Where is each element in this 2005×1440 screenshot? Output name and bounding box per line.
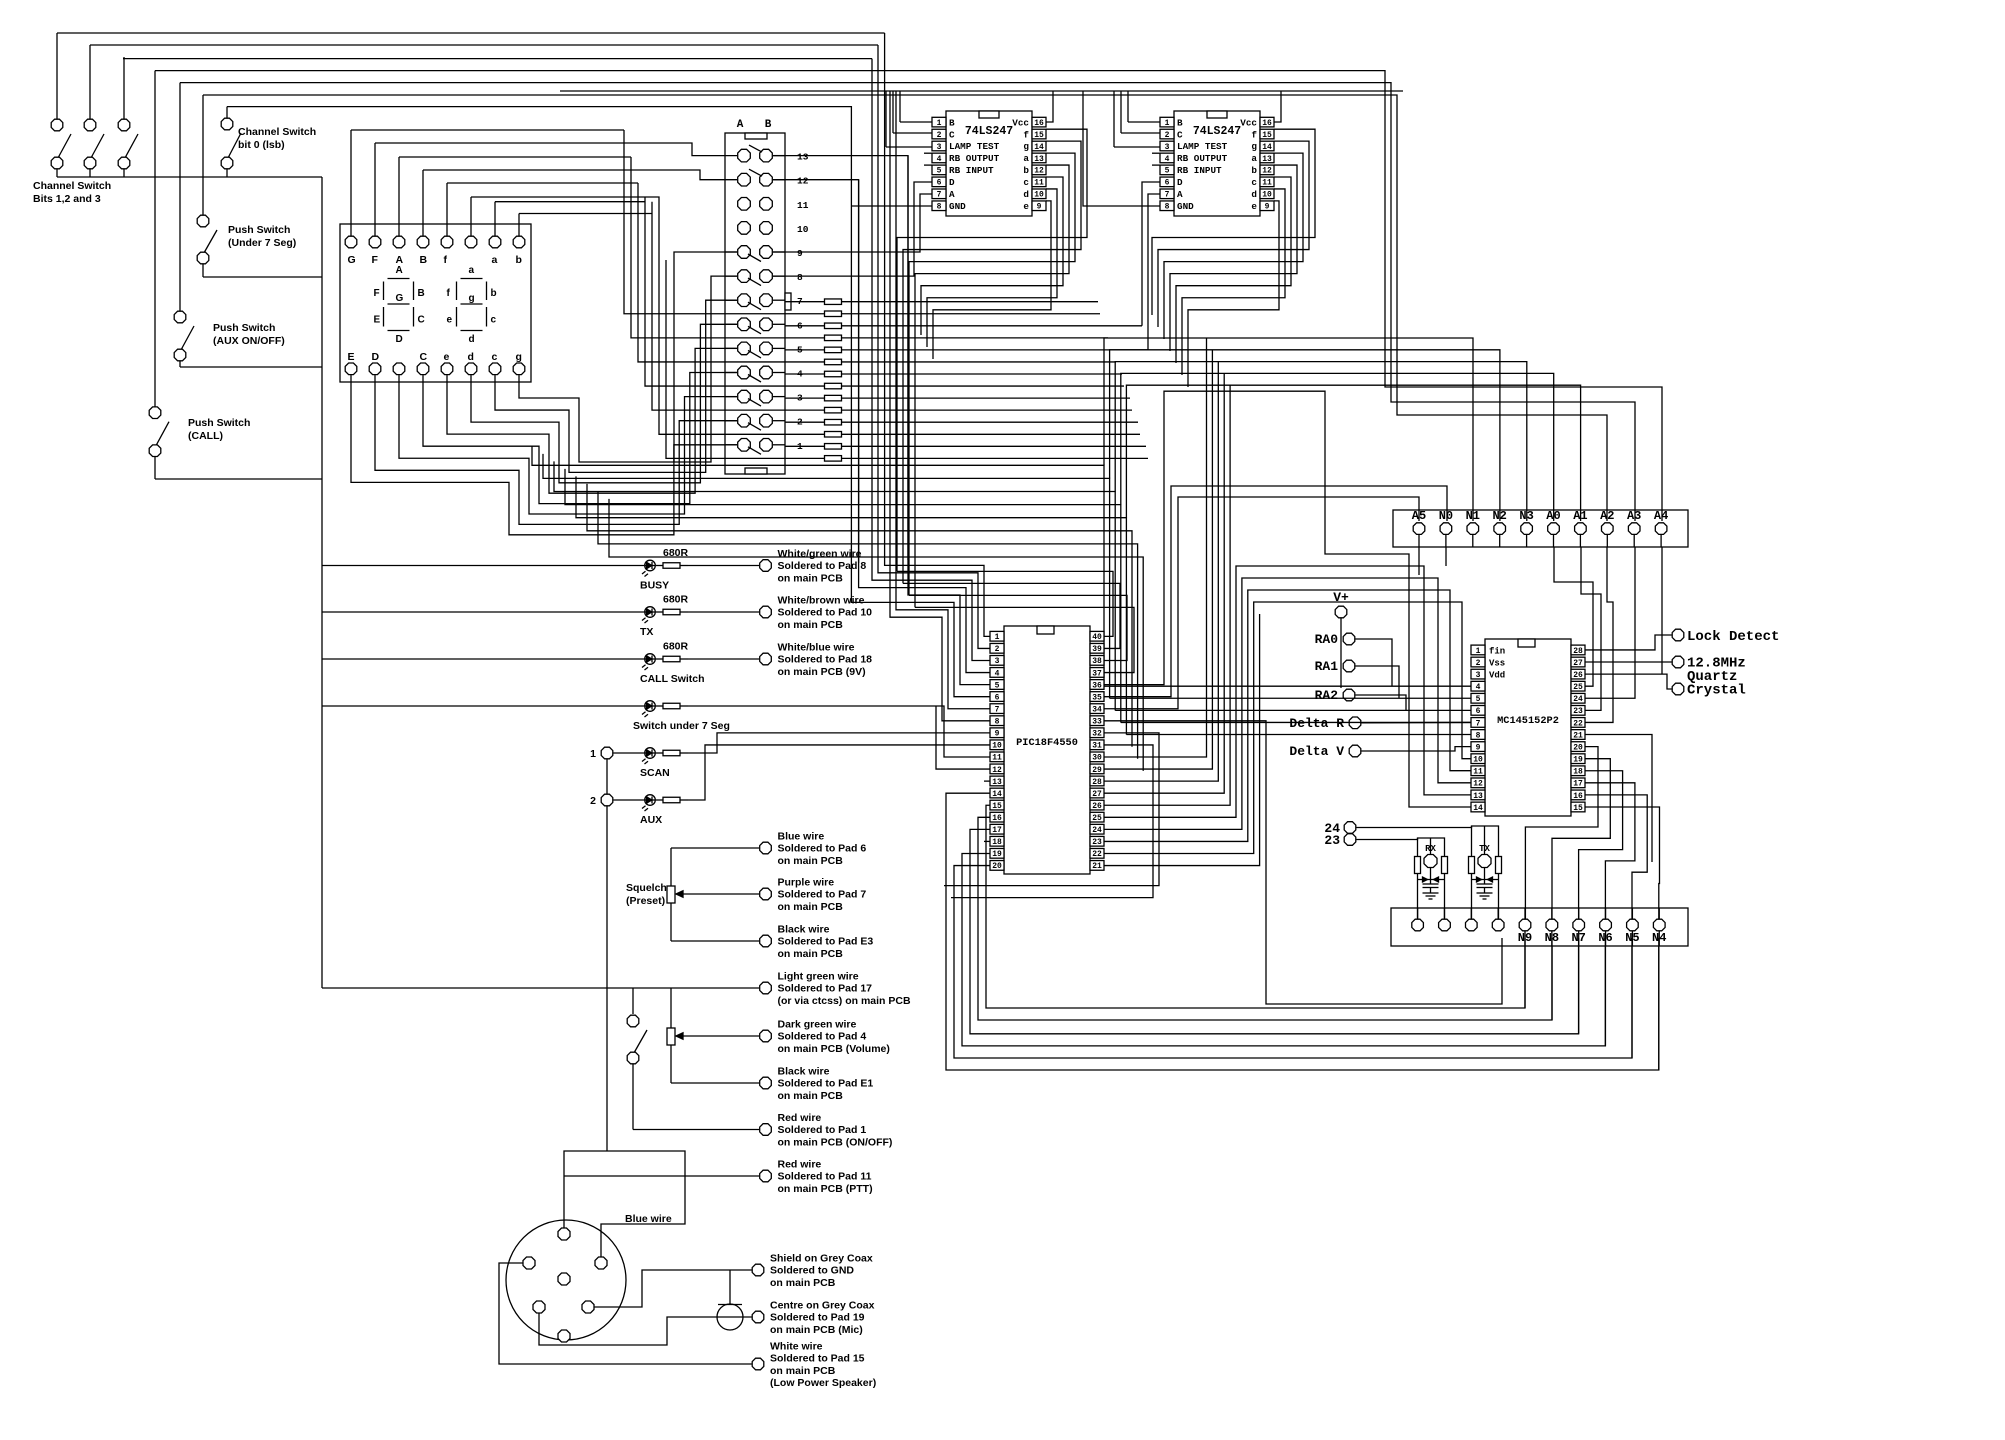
svg-text:21: 21: [1573, 731, 1583, 740]
LED row BUSY: [322, 547, 759, 592]
svg-text:9: 9: [1476, 743, 1481, 752]
terminal Crystal: [1672, 683, 1746, 699]
svg-text:on main PCB: on main PCB: [778, 948, 844, 960]
7seg top pin b: [513, 224, 525, 266]
wire 7seg top riser: [494, 202, 496, 224]
svg-text:29: 29: [1092, 766, 1102, 775]
wire 7seg b line: [519, 213, 652, 215]
strip terminal aux3: [1466, 919, 1478, 931]
svg-text:8: 8: [995, 718, 1000, 727]
svg-text:(CALL): (CALL): [188, 430, 223, 442]
svg-text:RA0: RA0: [1315, 632, 1339, 647]
wire N bottom stub: [1605, 931, 1607, 946]
wire U1 GND stub: [851, 205, 932, 207]
resistor column R11: [785, 419, 1138, 425]
svg-text:Crystal: Crystal: [1687, 683, 1746, 699]
svg-text:Soldered to Pad 8: Soldered to Pad 8: [778, 560, 867, 572]
svg-text:D: D: [396, 334, 403, 345]
svg-text:Soldered to Pad 15: Soldered to Pad 15: [770, 1353, 865, 1365]
terminal pad Soldered to Pad 19: [752, 1300, 874, 1336]
svg-text:LAMP TEST: LAMP TEST: [949, 141, 1000, 152]
wire PIC pin30 up to strip: [1104, 338, 1207, 757]
wire to PIC pin 3: [872, 59, 990, 661]
resistor column R10: [825, 407, 842, 413]
svg-text:b: b: [491, 288, 497, 299]
terminal pad Soldered to Pad 1: [760, 1112, 893, 1148]
svg-text:40: 40: [1092, 633, 1102, 642]
wire PIC pin40 row: [897, 571, 1113, 636]
svg-text:RB INPUT: RB INPUT: [949, 165, 994, 176]
svg-text:E: E: [374, 315, 381, 326]
LED row Switch under 7 Seg: [322, 701, 730, 732]
connector J1 body: [725, 133, 791, 474]
7seg top pin -: [465, 224, 477, 248]
wire 24 to TX: [1356, 826, 1471, 828]
svg-text:21: 21: [1092, 862, 1102, 871]
resistor column R7: [785, 371, 1122, 377]
svg-text:Shield on Grey Coax: Shield on Grey Coax: [770, 1253, 873, 1265]
svg-text:f: f: [1023, 129, 1029, 140]
svg-text:(AUX ON/OFF): (AUX ON/OFF): [213, 335, 285, 347]
wire U2 pin1-3 taps: [1114, 91, 1160, 147]
strip terminal aux2: [1439, 919, 1451, 931]
svg-text:d: d: [1251, 189, 1257, 200]
channel switch bit 0 (lsb): [221, 107, 316, 177]
svg-text:2: 2: [1165, 131, 1170, 140]
svg-text:2: 2: [1476, 659, 1481, 668]
svg-text:Delta R: Delta R: [1289, 716, 1344, 731]
svg-text:12: 12: [797, 176, 809, 187]
svg-text:C: C: [949, 129, 955, 140]
wire MC pin27 to 12.8MHz: [1585, 661, 1672, 663]
svg-text:B: B: [420, 254, 428, 266]
svg-text:1: 1: [937, 119, 942, 128]
7seg bottom pin -: [393, 363, 405, 382]
wire 7seg A line: [399, 156, 631, 158]
wire 7seg a line: [495, 201, 645, 203]
svg-text:on main PCB: on main PCB: [778, 901, 844, 913]
7seg top pin G: [345, 224, 357, 266]
svg-text:4: 4: [995, 669, 1000, 678]
svg-text:Centre on Grey Coax: Centre on Grey Coax: [770, 1300, 875, 1312]
svg-text:on main PCB (9V): on main PCB (9V): [778, 666, 866, 678]
wire Delta V to MC pin9: [1361, 747, 1471, 751]
svg-text:10: 10: [1034, 191, 1044, 200]
svg-text:GND: GND: [1177, 201, 1194, 212]
terminal pad Soldered to Pad E1: [760, 1066, 874, 1102]
wire MC pin22 to A2: [1585, 547, 1613, 722]
svg-text:34: 34: [1092, 705, 1102, 714]
wire lower rows group: [532, 446, 1143, 770]
svg-text:Soldered to Pad 19: Soldered to Pad 19: [770, 1312, 865, 1324]
svg-text:on main PCB (Volume): on main PCB (Volume): [778, 1043, 890, 1055]
svg-text:PIC18F4550: PIC18F4550: [1016, 737, 1078, 749]
wire 7seg bottom g to connector row 8: [519, 276, 737, 462]
svg-text:1: 1: [995, 633, 1000, 642]
wire N bottom stub: [1524, 931, 1526, 946]
wire PIC pin36 up: [1104, 391, 1471, 807]
svg-text:10: 10: [797, 224, 809, 235]
svg-text:2: 2: [995, 645, 1000, 654]
svg-text:a: a: [1023, 153, 1029, 164]
wire N bottom stub: [1551, 931, 1553, 946]
svg-text:A3: A3: [1627, 509, 1641, 523]
svg-text:D: D: [372, 351, 380, 363]
svg-text:Purple wire: Purple wire: [778, 877, 835, 889]
wire U2 Vcc riser: [1274, 91, 1281, 122]
connector row 1: [738, 439, 803, 455]
terminal pad Soldered to Pad 18: [760, 642, 872, 678]
channel switch bit 1: [51, 33, 71, 177]
wire MC pin17 to N strip: [1585, 783, 1635, 919]
strip terminal A3: [1627, 509, 1641, 547]
wire AUX line to A3: [180, 83, 1635, 521]
terminal pad Soldered to Pad 17: [760, 971, 911, 1007]
svg-text:3: 3: [1165, 143, 1170, 152]
svg-text:5: 5: [937, 167, 942, 176]
connector row 5: [738, 342, 803, 358]
wire to PIC pin 4: [859, 180, 990, 673]
wire 7seg bottom C to connector row 4: [423, 373, 737, 504]
7seg bottom pin E: [345, 351, 357, 382]
wire PIC pin22 to MC: [1104, 602, 1471, 853]
7seg bottom pin C: [417, 351, 429, 382]
svg-text:31: 31: [1092, 742, 1102, 751]
wire F line to row13: [375, 143, 737, 156]
svg-text:28: 28: [1573, 647, 1583, 656]
wire 7seg f line: [447, 182, 638, 184]
wire 7seg bottom pin to connector row 3: [399, 382, 737, 514]
wire segment feed 3: [645, 197, 1124, 386]
svg-text:A: A: [1177, 189, 1183, 200]
resistor column R3: [785, 323, 1142, 329]
wire to PIC pin 7: [896, 91, 990, 709]
svg-text:74LS247: 74LS247: [965, 125, 1013, 138]
connector row 13: [738, 145, 809, 163]
terminal RA0: [1315, 632, 1355, 647]
connector row 7: [738, 294, 803, 310]
svg-text:8: 8: [1476, 731, 1481, 740]
wire PIC pin28 up to strip: [1104, 362, 1218, 782]
svg-text:28: 28: [1092, 778, 1102, 787]
svg-text:9: 9: [1037, 203, 1042, 212]
terminal pad Soldered to Pad 4: [760, 1019, 890, 1055]
svg-text:c: c: [1251, 177, 1257, 188]
7seg bottom pin c: [489, 351, 501, 382]
wire MC pin21 long: [1585, 735, 1652, 862]
svg-text:27: 27: [1573, 659, 1583, 668]
wire PTT row: [564, 1175, 759, 1177]
wire 7seg bottom D to connector row 2: [375, 382, 737, 524]
wire bus row to MC pin5: [1110, 697, 1471, 699]
svg-text:25: 25: [1092, 814, 1102, 823]
wire switch line y=58.6: [123, 58, 872, 60]
svg-text:V+: V+: [1333, 590, 1349, 605]
terminal pad Soldered to Pad 6: [760, 831, 867, 867]
svg-text:C: C: [420, 351, 428, 363]
svg-text:9: 9: [995, 730, 1000, 739]
svg-text:Lock Detect: Lock Detect: [1687, 629, 1779, 645]
wire bus to A0: [1121, 373, 1554, 521]
svg-text:e: e: [447, 315, 453, 326]
7seg bottom pin d: [465, 351, 477, 382]
svg-text:18: 18: [992, 838, 1002, 847]
svg-text:on main PCB (ON/OFF): on main PCB (ON/OFF): [778, 1136, 893, 1148]
svg-text:8: 8: [937, 203, 942, 212]
svg-text:on main PCB: on main PCB: [770, 1277, 836, 1289]
svg-text:Channel Switch: Channel Switch: [238, 126, 316, 138]
wire MC pin19 to N strip: [1552, 759, 1610, 919]
svg-text:b: b: [516, 254, 522, 266]
7seg top pin f: [441, 224, 453, 266]
terminal Delta R: [1289, 716, 1360, 731]
connector row 12: [738, 169, 809, 187]
svg-text:Push Switch: Push Switch: [188, 417, 250, 429]
terminal V+: [1333, 590, 1349, 688]
wire row9 long: [773, 194, 932, 252]
strip terminal N2: [1492, 509, 1506, 547]
svg-text:16: 16: [1573, 792, 1583, 801]
wire segment feed 0: [624, 130, 1100, 314]
connector B pin stubs: [773, 156, 785, 445]
svg-text:a: a: [469, 265, 475, 276]
svg-text:Black wire: Black wire: [778, 924, 830, 936]
terminal pad Soldered to Pad 10: [760, 595, 872, 631]
svg-text:Soldered to Pad 10: Soldered to Pad 10: [778, 607, 873, 619]
IC PIC18F4550 U3: [990, 626, 1104, 874]
svg-text:5: 5: [1476, 695, 1481, 704]
svg-text:Vdd: Vdd: [1489, 671, 1505, 681]
connector header label B: [765, 119, 772, 131]
svg-text:A: A: [737, 119, 744, 131]
terminal strip N box: [1391, 908, 1688, 946]
7seg top pin F: [369, 224, 381, 266]
svg-text:Blue wire: Blue wire: [778, 831, 825, 843]
svg-text:10: 10: [1262, 191, 1272, 200]
svg-text:25: 25: [1573, 683, 1583, 692]
wire 7seg bottom d to connector row 6: [471, 324, 737, 483]
svg-text:e: e: [444, 351, 450, 363]
resistor column R14: [825, 456, 842, 462]
push switch (AUX ON/OFF): [174, 83, 322, 367]
wire AUX to PIC pin10: [688, 745, 990, 800]
svg-text:8: 8: [797, 272, 803, 283]
wire N bottom stub: [1578, 931, 1580, 946]
svg-text:Push Switch: Push Switch: [213, 322, 275, 334]
wire DIN bl to centre: [539, 1314, 752, 1346]
svg-text:13: 13: [1473, 792, 1483, 801]
svg-text:(Preset): (Preset): [626, 895, 665, 907]
svg-text:680R: 680R: [663, 641, 689, 653]
wire RA0 to MC pin4: [1355, 639, 1392, 686]
svg-text:on main PCB: on main PCB: [770, 1365, 836, 1377]
connector row 10: [738, 222, 809, 235]
wire RA1 to MC pin5: [1355, 666, 1399, 698]
7seg top pin A: [393, 224, 405, 266]
wire bus to N3: [1115, 362, 1527, 521]
resistor column R2: [825, 311, 842, 317]
wire U1 output staircase: [897, 129, 1087, 607]
resistor column R5: [785, 347, 1148, 353]
wire N feed to PIC pin 19: [962, 853, 1605, 1045]
wire 7seg top riser: [446, 183, 448, 224]
on/off switch: [627, 1015, 759, 1129]
resistor column R6: [825, 359, 842, 365]
label Channel Switch Bits 1,2 and 3: [33, 180, 111, 205]
potentiometer Volume: [667, 988, 759, 1083]
wire row12 B to bus: [773, 180, 859, 563]
wire PIC pin31 under-chip: [951, 745, 1153, 898]
svg-text:26: 26: [1573, 671, 1583, 680]
svg-text:1: 1: [1476, 647, 1481, 656]
svg-text:Dark green wire: Dark green wire: [778, 1019, 857, 1031]
connector row 3: [738, 390, 803, 406]
svg-text:5: 5: [995, 681, 1000, 690]
terminal pad Soldered to Pad 7: [760, 877, 867, 913]
wire U1 Vcc riser: [1046, 91, 1053, 122]
wire U1 pin1-3 taps: [886, 91, 932, 147]
strip terminal A5: [1412, 509, 1426, 547]
svg-text:12: 12: [992, 766, 1002, 775]
svg-text:39: 39: [1092, 645, 1102, 654]
svg-text:LAMP TEST: LAMP TEST: [1177, 141, 1228, 152]
terminal pad Soldered to Pad 8: [760, 548, 867, 584]
svg-text:16: 16: [992, 814, 1002, 823]
7seg bottom pin D: [369, 351, 381, 382]
IC 74LS247 U1: [932, 111, 1046, 216]
svg-text:Channel Switch: Channel Switch: [33, 180, 111, 192]
wire bottom N staircase: [1525, 946, 1659, 1070]
wire to PIC pin 1: [885, 33, 990, 636]
wire N feed to PIC pin 15: [986, 805, 1525, 1008]
svg-text:White/blue wire: White/blue wire: [778, 642, 855, 654]
svg-text:24: 24: [1573, 695, 1583, 704]
svg-text:b: b: [1251, 165, 1257, 176]
svg-text:B: B: [1177, 117, 1183, 128]
svg-text:F: F: [374, 288, 380, 299]
nc dash pins 4 5: [1152, 153, 1160, 165]
wire MC pin24 to A3: [1585, 547, 1635, 698]
wire PIC pin26 up to strip: [1104, 385, 1230, 805]
strip terminal A1: [1573, 509, 1587, 547]
svg-text:Black wire: Black wire: [778, 1066, 830, 1078]
strip terminal N6: [1598, 919, 1612, 945]
wire 7seg top riser: [518, 214, 520, 225]
svg-text:AUX: AUX: [640, 814, 662, 826]
svg-text:27: 27: [1092, 790, 1102, 799]
svg-text:19: 19: [992, 850, 1002, 859]
IC 74LS247 U2: [1160, 111, 1274, 216]
svg-text:15: 15: [992, 802, 1002, 811]
wire row8 long: [773, 182, 932, 276]
svg-text:c: c: [491, 315, 497, 326]
svg-text:d: d: [1023, 189, 1029, 200]
svg-text:Soldered to Pad 6: Soldered to Pad 6: [778, 843, 867, 855]
svg-text:7: 7: [1165, 191, 1170, 200]
trimmer TX: [1469, 826, 1502, 919]
svg-text:22: 22: [1573, 719, 1583, 728]
svg-text:on main PCB: on main PCB: [778, 619, 844, 631]
svg-text:3: 3: [937, 143, 942, 152]
wire MC pin25 to A0: [1554, 547, 1593, 686]
svg-text:A2: A2: [1600, 509, 1614, 523]
wire N feed to PIC pin 17: [970, 829, 1579, 1033]
wire PIC pin35 up: [1104, 486, 1447, 697]
svg-text:Squelch: Squelch: [626, 882, 667, 894]
svg-text:6: 6: [1165, 179, 1170, 188]
wire light green row: [322, 988, 759, 1014]
svg-text:F: F: [372, 254, 379, 266]
strip terminal N8: [1545, 919, 1559, 945]
svg-text:a: a: [1251, 153, 1257, 164]
svg-text:30: 30: [1092, 754, 1102, 763]
svg-text:G: G: [348, 254, 356, 266]
wire N bottom stub: [1631, 931, 1633, 946]
svg-text:4: 4: [1165, 155, 1170, 164]
wire Vcc line: [560, 90, 1403, 92]
wire 7seg G line: [351, 129, 624, 131]
svg-text:10: 10: [1473, 756, 1483, 765]
wire connector row9 feed: [674, 252, 737, 462]
wire bus row to MC pin6: [1115, 709, 1471, 711]
LED row AUX: [590, 794, 688, 826]
svg-text:11: 11: [1262, 179, 1272, 188]
svg-text:13: 13: [1034, 155, 1044, 164]
wire PIC pin24 to MC: [1104, 578, 1471, 829]
wire blue wire path: [601, 1151, 685, 1257]
wire odd row 6: [471, 197, 1140, 434]
svg-text:GND: GND: [949, 201, 966, 212]
wire Delta R to MC pin7: [1361, 721, 1471, 723]
svg-text:RB INPUT: RB INPUT: [1177, 165, 1222, 176]
wire SCAN to PIC pin9: [688, 733, 990, 753]
svg-text:d: d: [469, 334, 475, 345]
svg-text:(Low Power Speaker): (Low Power Speaker): [770, 1377, 876, 1389]
channel switch bit 3: [118, 57, 138, 177]
nc dash PIC pins 13 18: [984, 781, 990, 841]
resistor column R1: [785, 299, 1098, 305]
LED row SCAN: [590, 747, 688, 1151]
wire PIC pin37 row: [915, 607, 1134, 672]
DIN plug connector: [506, 1220, 626, 1342]
wire switch line y=33: [57, 32, 885, 34]
svg-text:12: 12: [1262, 167, 1272, 176]
svg-text:f: f: [1251, 129, 1257, 140]
terminal pad Soldered to Pad 11: [760, 1159, 873, 1195]
svg-text:11: 11: [797, 200, 809, 211]
svg-text:32: 32: [1092, 730, 1102, 739]
svg-text:20: 20: [1573, 743, 1583, 752]
svg-text:BUSY: BUSY: [640, 580, 669, 592]
terminal pad Soldered to Pad E3: [760, 924, 874, 960]
svg-text:14: 14: [1473, 804, 1483, 813]
connector A pin stubs: [725, 252, 737, 445]
nc dash pins 4 5: [924, 153, 932, 165]
wire MC pin28 to Lock Detect: [1585, 635, 1672, 650]
wire 7seg top riser: [374, 143, 376, 224]
svg-text:Vcc: Vcc: [1012, 117, 1029, 128]
terminal pad Soldered to GND: [752, 1253, 873, 1289]
svg-text:D: D: [1177, 177, 1183, 188]
7seg right digit glyph: [447, 265, 497, 345]
svg-text:D: D: [949, 177, 955, 188]
svg-text:Push Switch: Push Switch: [228, 224, 290, 236]
svg-text:Bits 1,2 and 3: Bits 1,2 and 3: [33, 193, 101, 205]
svg-text:on main PCB (PTT): on main PCB (PTT): [778, 1183, 873, 1195]
wire N0 down: [1445, 547, 1447, 566]
wire A4 branch to pin26 row: [1661, 547, 1663, 674]
svg-text:680R: 680R: [663, 594, 689, 606]
